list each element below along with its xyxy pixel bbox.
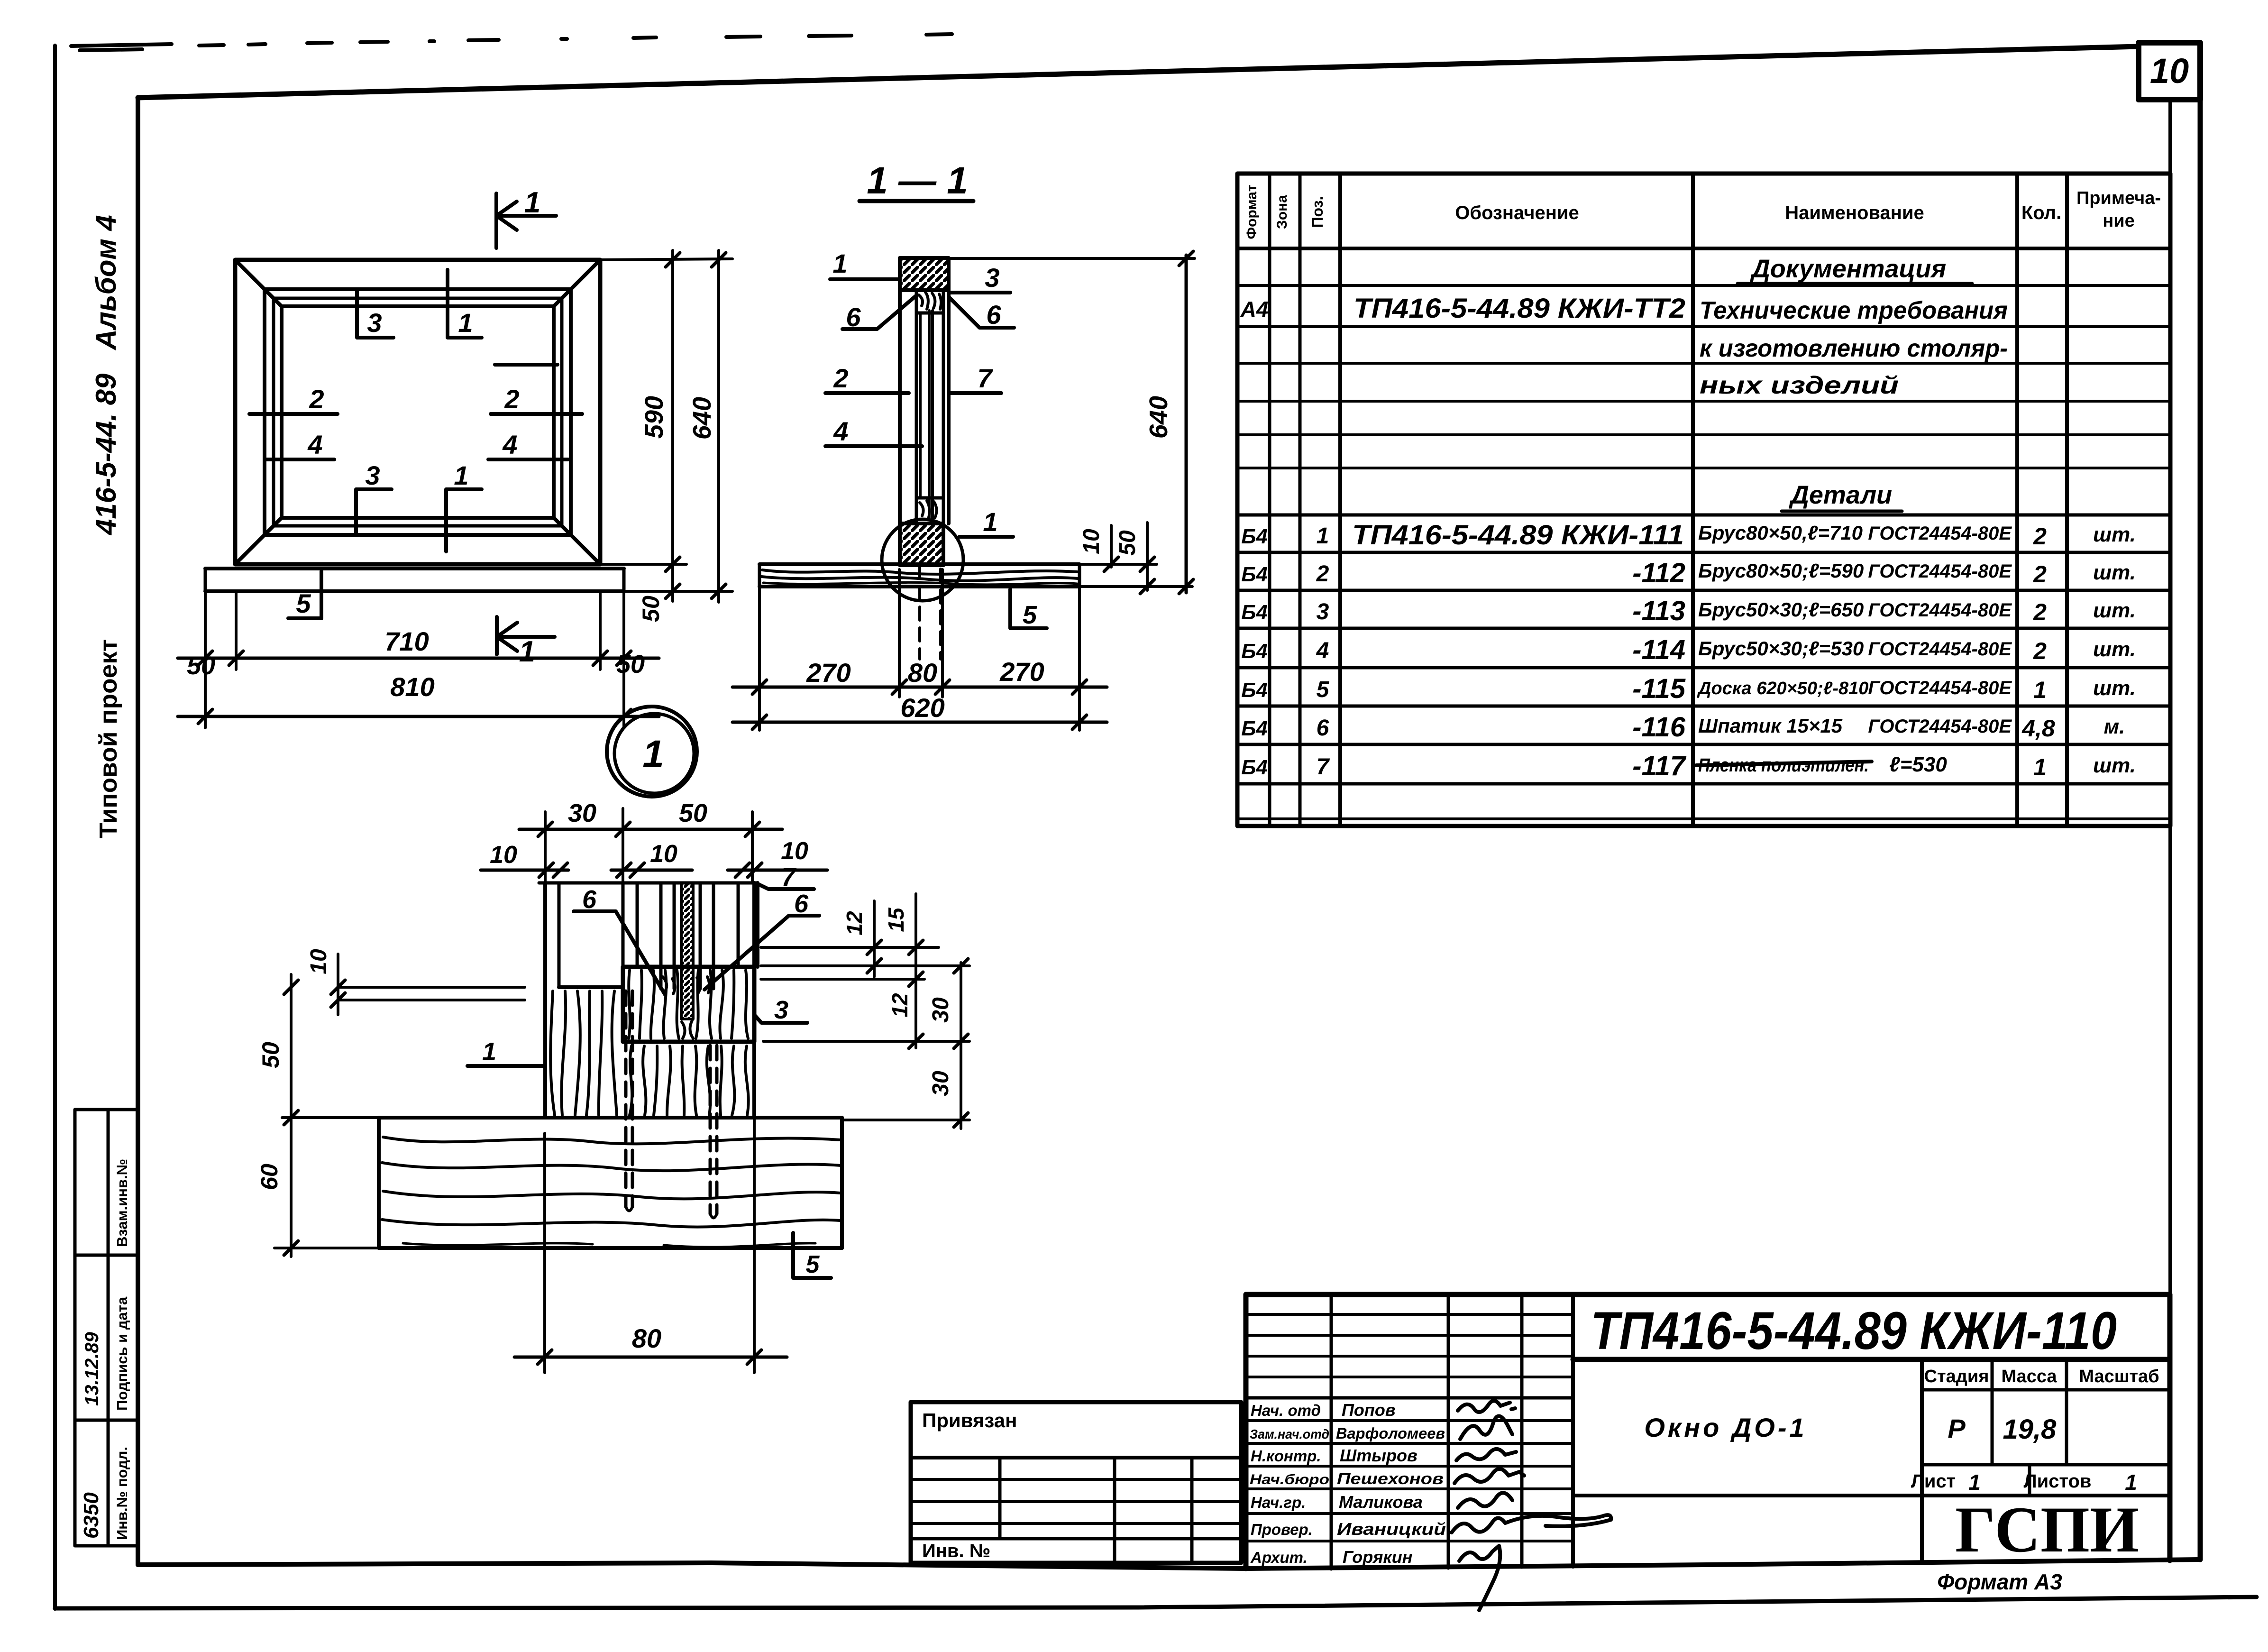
dim 640 section: [1185, 255, 1188, 593]
svg-text:590: 590: [640, 396, 668, 439]
svg-text:-113: -113: [1632, 596, 1685, 626]
dim 10 detail left: [337, 954, 339, 1015]
svg-text:ГОСТ24454-80Е: ГОСТ24454-80Е: [1868, 678, 2012, 698]
svg-text:416-5-44. 89 Альбом 4: 416-5-44. 89 Альбом 4: [90, 215, 122, 535]
svg-text:шт.: шт.: [2093, 599, 2136, 622]
callout 1 detail: [467, 1064, 545, 1068]
svg-text:1: 1: [2033, 754, 2047, 780]
detail balloon 1: [607, 707, 697, 797]
dim 270 80 270: [732, 686, 1107, 689]
svg-text:Нач.гр.: Нач.гр.: [1251, 1494, 1306, 1511]
svg-text:Р: Р: [1948, 1413, 1966, 1443]
svg-text:2: 2: [2033, 638, 2047, 664]
signature squiggles: [1452, 1401, 1611, 1610]
svg-text:7: 7: [1317, 754, 1330, 780]
dim 80 detail bottom: [545, 1048, 754, 1373]
detail frame top cut edge: [539, 881, 758, 885]
svg-text:5: 5: [1317, 677, 1330, 702]
section dim extensions: [759, 258, 1195, 730]
small wood bits at bead top: [663, 977, 710, 994]
svg-text:ние: ние: [2103, 211, 2134, 231]
svg-text:2: 2: [309, 384, 324, 414]
svg-text:Лист: Лист: [1911, 1471, 1956, 1492]
svg-text:1: 1: [519, 635, 535, 668]
svg-text:шт.: шт.: [2093, 677, 2136, 700]
svg-text:6: 6: [986, 300, 1001, 330]
svg-text:Подпись и дата: Подпись и дата: [114, 1296, 130, 1411]
svg-text:10: 10: [1079, 529, 1104, 554]
svg-text:6: 6: [582, 885, 597, 914]
svg-text:шт.: шт.: [2093, 754, 2136, 777]
svg-text:10: 10: [650, 840, 677, 868]
svg-text:4: 4: [1316, 638, 1329, 663]
svg-text:Б4: Б4: [1241, 525, 1268, 548]
svg-text:1: 1: [642, 733, 664, 776]
svg-text:12: 12: [887, 993, 912, 1018]
svg-text:1 — 1: 1 — 1: [867, 159, 968, 202]
svg-text:1: 1: [482, 1037, 496, 1066]
svg-text:60: 60: [256, 1164, 283, 1190]
svg-text:50: 50: [638, 596, 664, 622]
mitre diagonal bottom-right: [554, 518, 600, 564]
callout 2 right: [491, 412, 582, 416]
callout 1 section top: [830, 277, 900, 281]
detail right extension lines: [761, 947, 969, 1120]
svg-text:Н.контр.: Н.контр.: [1251, 1447, 1321, 1465]
dim line 810: [178, 715, 659, 718]
svg-text:10: 10: [490, 841, 517, 869]
svg-text:-115: -115: [1632, 673, 1686, 704]
svg-text:Инв.№ подл.: Инв.№ подл.: [114, 1447, 130, 1540]
dim line 50 710 50: [178, 657, 659, 660]
svg-text:2: 2: [833, 363, 848, 393]
svg-text:Примеча-: Примеча-: [2076, 188, 2161, 208]
glazing bead block 3 detail: [623, 967, 754, 1042]
mitre diagonal top-right: [554, 260, 600, 306]
svg-text:4: 4: [833, 416, 848, 446]
svg-text:Детали: Детали: [1789, 481, 1892, 509]
svg-text:10: 10: [306, 949, 331, 974]
svg-text:Иваницкий: Иваницкий: [1337, 1519, 1446, 1539]
detail dim extensions top: [545, 808, 752, 883]
svg-text:Типовой проект: Типовой проект: [95, 639, 122, 838]
svg-text:Инв. №: Инв. №: [922, 1541, 990, 1561]
callout 4 section: [825, 444, 922, 448]
svg-text:ГОСТ24454-80Е: ГОСТ24454-80Е: [1868, 523, 2012, 544]
dim 10 right detail: [728, 869, 827, 872]
svg-text:2: 2: [2033, 599, 2047, 625]
svg-text:640: 640: [1144, 396, 1173, 439]
callout 5 section: [1010, 589, 1047, 628]
svg-text:ных изделий: ных изделий: [1700, 372, 1899, 399]
leader line right upper: [495, 363, 558, 367]
svg-text:Брус80×50,ℓ=710: Брус80×50,ℓ=710: [1698, 522, 1863, 544]
svg-text:80: 80: [632, 1323, 661, 1353]
callout 5 sill: [288, 571, 321, 618]
svg-text:м.: м.: [2104, 715, 2125, 738]
svg-text:Б4: Б4: [1241, 756, 1268, 779]
svg-text:270: 270: [999, 657, 1044, 687]
svg-text:2: 2: [2033, 561, 2047, 587]
svg-text:Нач.бюро: Нач.бюро: [1250, 1472, 1329, 1487]
svg-text:1: 1: [454, 460, 468, 490]
svg-text:Кол.: Кол.: [2021, 202, 2061, 223]
svg-text:Формат А3: Формат А3: [1937, 1569, 2062, 1594]
svg-text:Листов: Листов: [2024, 1471, 2092, 1492]
film glazing strip detail: [681, 883, 693, 1019]
svg-text:-116: -116: [1632, 712, 1686, 743]
dim 50 sill thickness: [1146, 523, 1149, 590]
svg-text:ТП416-5-44.89 КЖИ-ТТ2: ТП416-5-44.89 КЖИ-ТТ2: [1353, 293, 1685, 324]
callout 1 top: [448, 270, 482, 338]
dim 10 sill step: [1110, 525, 1113, 567]
svg-text:Документация: Документация: [1750, 255, 1946, 283]
svg-text:ГОСТ24454-80Е: ГОСТ24454-80Е: [1868, 639, 2012, 660]
svg-text:1: 1: [983, 507, 997, 537]
svg-text:7: 7: [781, 863, 797, 891]
svg-text:7: 7: [977, 363, 993, 393]
svg-text:шт.: шт.: [2093, 523, 2136, 546]
dim 620: [732, 721, 1107, 724]
svg-text:Б4: Б4: [1241, 601, 1268, 624]
frame block 1 detail: [545, 987, 754, 1118]
svg-text:80: 80: [908, 658, 937, 688]
svg-text:5: 5: [806, 1251, 820, 1278]
svg-text:3: 3: [985, 263, 999, 293]
svg-text:Горякин: Горякин: [1343, 1547, 1413, 1567]
svg-text:Брус50×30;ℓ=530: Брус50×30;ℓ=530: [1698, 637, 1864, 660]
svg-text:3: 3: [367, 308, 382, 338]
top rail cross-section hatched: [900, 258, 949, 290]
callout 1 section bottom: [960, 535, 1013, 539]
svg-text:-114: -114: [1632, 634, 1685, 665]
svg-text:Шпатик 15×15: Шпатик 15×15: [1698, 715, 1843, 737]
dim 590 ticks: [666, 253, 680, 598]
outer sheet border left: [53, 46, 57, 1609]
svg-text:Маликова: Маликова: [1339, 1492, 1423, 1512]
svg-text:Б4: Б4: [1241, 717, 1268, 740]
section mark 1 top: [496, 193, 556, 248]
svg-text:10: 10: [2150, 51, 2189, 91]
svg-text:Нач. отд: Нач. отд: [1251, 1402, 1321, 1419]
svg-text:Привязан: Привязан: [922, 1409, 1017, 1432]
window frame moulding inner rect 2: [274, 298, 562, 526]
window front view: outer frame: [205, 260, 624, 591]
callout 4 left: [266, 458, 334, 461]
svg-text:620: 620: [900, 693, 944, 723]
svg-text:30: 30: [568, 799, 596, 827]
svg-text:ТП416-5-44.89 КЖИ-110: ТП416-5-44.89 КЖИ-110: [1591, 1301, 2117, 1360]
svg-text:Пешехонов: Пешехонов: [1337, 1470, 1444, 1488]
svg-text:-112: -112: [1632, 558, 1685, 588]
svg-text:-117: -117: [1632, 751, 1687, 781]
svg-text:Зам.нач.отд: Зам.нач.отд: [1250, 1427, 1329, 1441]
svg-text:1: 1: [1317, 523, 1329, 549]
svg-text:Стадия: Стадия: [1924, 1367, 1989, 1386]
scan edge dashes top: [71, 34, 952, 50]
svg-text:1: 1: [524, 186, 540, 219]
callout 7 detail: [758, 884, 814, 889]
svg-text:Зона: Зона: [1274, 195, 1290, 229]
svg-text:к изготовлению столяр-: к изготовлению столяр-: [1700, 335, 2008, 362]
svg-text:Наименование: Наименование: [1785, 202, 1924, 223]
svg-text:3: 3: [774, 996, 788, 1024]
svg-text:19,8: 19,8: [2003, 1414, 2057, 1445]
svg-text:6350: 6350: [80, 1492, 103, 1539]
svg-text:Брус50×30;ℓ=650: Брус50×30;ℓ=650: [1698, 598, 1864, 621]
svg-text:810: 810: [390, 672, 434, 702]
dim 30 detail right upper: [960, 963, 962, 1129]
left attribute table: [75, 1110, 138, 1546]
callout 6 section right: [949, 297, 1014, 328]
svg-text:Штыров: Штыров: [1340, 1446, 1417, 1465]
dim 640 ticks: [712, 253, 726, 598]
svg-text:Варфоломеев: Варфоломеев: [1336, 1425, 1445, 1442]
dim 10 middle detail: [611, 869, 692, 872]
callout 6 section left: [842, 295, 916, 329]
svg-text:Архит.: Архит.: [1250, 1549, 1308, 1566]
svg-text:5: 5: [1023, 601, 1037, 629]
svg-text:Технические требования: Технические требования: [1700, 297, 2008, 324]
callout 6 detail left: [574, 911, 665, 995]
callout 3 top: [357, 290, 393, 338]
svg-text:ГСПИ: ГСПИ: [1955, 1493, 2139, 1566]
bottom rail cross-section hatched: [900, 523, 943, 565]
dim 15 detail right: [915, 894, 917, 1048]
callout 3 detail: [754, 1015, 807, 1023]
detail left extension lines: [274, 987, 525, 1248]
svg-text:50: 50: [679, 799, 707, 827]
svg-text:50: 50: [616, 650, 645, 679]
specification table grid: [1237, 100, 2170, 1294]
window frame moulding inner rect 1: [265, 289, 571, 535]
svg-text:6: 6: [846, 302, 861, 332]
svg-text:4: 4: [307, 430, 322, 459]
svg-text:ТП416-5-44.89 КЖИ-111: ТП416-5-44.89 КЖИ-111: [1352, 520, 1684, 551]
sill board detail: [379, 1118, 842, 1248]
nails dashed section: [920, 565, 941, 659]
svg-text:Доска 620×50;ℓ-810: Доска 620×50;ℓ-810: [1697, 679, 1868, 698]
svg-text:А4: А4: [1240, 297, 1269, 321]
dim 12 detail right upper: [873, 901, 876, 977]
binding table (Привязан): [911, 1402, 1241, 1563]
section mark 1 bottom: [497, 617, 555, 654]
sill board front view: [205, 567, 624, 570]
svg-text:13.12.89: 13.12.89: [82, 1332, 102, 1406]
svg-text:1: 1: [832, 248, 847, 278]
svg-text:2: 2: [504, 384, 519, 414]
callout 4 right: [488, 458, 569, 461]
svg-text:Окно ДО-1: Окно ДО-1: [1644, 1413, 1807, 1442]
svg-text:Попов: Попов: [1342, 1400, 1396, 1420]
callout 5 detail: [793, 1233, 831, 1278]
svg-text:30: 30: [928, 1071, 953, 1096]
svg-text:640: 640: [688, 397, 716, 440]
svg-text:Б4: Б4: [1241, 679, 1268, 702]
sheet number box: [2139, 43, 2200, 100]
detail circle on section: [882, 519, 963, 601]
dim 50 detail left: [290, 974, 293, 1257]
svg-text:710: 710: [384, 626, 429, 656]
dim extension lines bottom: [205, 250, 732, 728]
mitre diagonal top-left: [235, 260, 282, 306]
svg-text:шт.: шт.: [2093, 638, 2136, 661]
svg-text:3: 3: [1317, 599, 1329, 624]
svg-text:Взам.инв.№: Взам.инв.№: [114, 1159, 130, 1247]
svg-text:шт.: шт.: [2093, 561, 2136, 584]
svg-text:6: 6: [794, 890, 809, 918]
dim 10 left detail: [481, 869, 568, 872]
svg-text:15: 15: [884, 907, 908, 932]
outer sheet border bottom: [55, 1597, 2257, 1608]
svg-text:ГОСТ24454-80Е: ГОСТ24454-80Е: [1868, 561, 2012, 582]
svg-text:1: 1: [1968, 1470, 1981, 1495]
title block outer: [1246, 1294, 2170, 1569]
svg-text:50: 50: [187, 652, 215, 680]
svg-text:4: 4: [502, 430, 517, 459]
svg-text:Масса: Масса: [2001, 1367, 2057, 1386]
svg-text:50: 50: [257, 1042, 284, 1068]
callout 2 section: [825, 391, 909, 395]
svg-text:1: 1: [2125, 1470, 2137, 1495]
svg-text:50: 50: [1115, 530, 1140, 556]
svg-text:Масштаб: Масштаб: [2079, 1367, 2159, 1386]
svg-text:Провер.: Провер.: [1251, 1521, 1313, 1538]
svg-text:2: 2: [2033, 523, 2047, 550]
callout 6 detail right: [704, 916, 819, 990]
callout 3 bottom: [356, 489, 392, 535]
nails dashed detail: [626, 991, 717, 1214]
title block signature grid: [1246, 1294, 1573, 1569]
title block right grid: [1573, 1359, 2170, 1563]
drawing frame: [138, 46, 2139, 98]
glazing bead top wood grain: [916, 290, 943, 313]
svg-text:270: 270: [806, 658, 850, 688]
svg-text:3: 3: [365, 460, 380, 490]
svg-text:Поз.: Поз.: [1309, 196, 1326, 228]
sill board section: [759, 564, 1079, 587]
window frame moulding inner rect 3: [282, 306, 554, 518]
svg-text:5: 5: [296, 588, 311, 618]
glazing bead bottom wood grain: [916, 498, 943, 523]
svg-text:12: 12: [842, 911, 867, 936]
frame member faces section: [900, 290, 949, 564]
detail frame member verticals: [545, 883, 758, 1118]
svg-text:ГОСТ24454-80Е: ГОСТ24454-80Е: [1868, 716, 2012, 737]
svg-text:Обозначение: Обозначение: [1455, 202, 1579, 223]
svg-text:Б4: Б4: [1241, 640, 1268, 663]
svg-text:2: 2: [1316, 561, 1329, 587]
svg-text:Брус80×50;ℓ=590: Брус80×50;ℓ=590: [1698, 560, 1864, 582]
svg-text:Б4: Б4: [1241, 563, 1268, 586]
callout 1 bottom: [446, 489, 482, 551]
callout 2 left: [249, 412, 338, 416]
svg-text:4,8: 4,8: [2021, 715, 2055, 742]
svg-text:10: 10: [781, 837, 808, 865]
svg-text:1: 1: [458, 308, 473, 338]
film glazing section: [929, 311, 933, 519]
svg-text:1: 1: [2033, 677, 2047, 703]
svg-text:ГОСТ24454-80Е: ГОСТ24454-80Е: [1868, 600, 2012, 621]
callout 3 section: [949, 291, 1010, 294]
svg-text:30: 30: [928, 997, 953, 1023]
svg-text:Формат: Формат: [1244, 184, 1260, 239]
dim 30 50 detail: [519, 828, 782, 831]
svg-text:ℓ=530: ℓ=530: [1889, 753, 1947, 776]
callout 7 section: [949, 391, 1001, 395]
svg-text:6: 6: [1317, 716, 1329, 741]
mitre diagonal bottom-left: [235, 518, 282, 564]
